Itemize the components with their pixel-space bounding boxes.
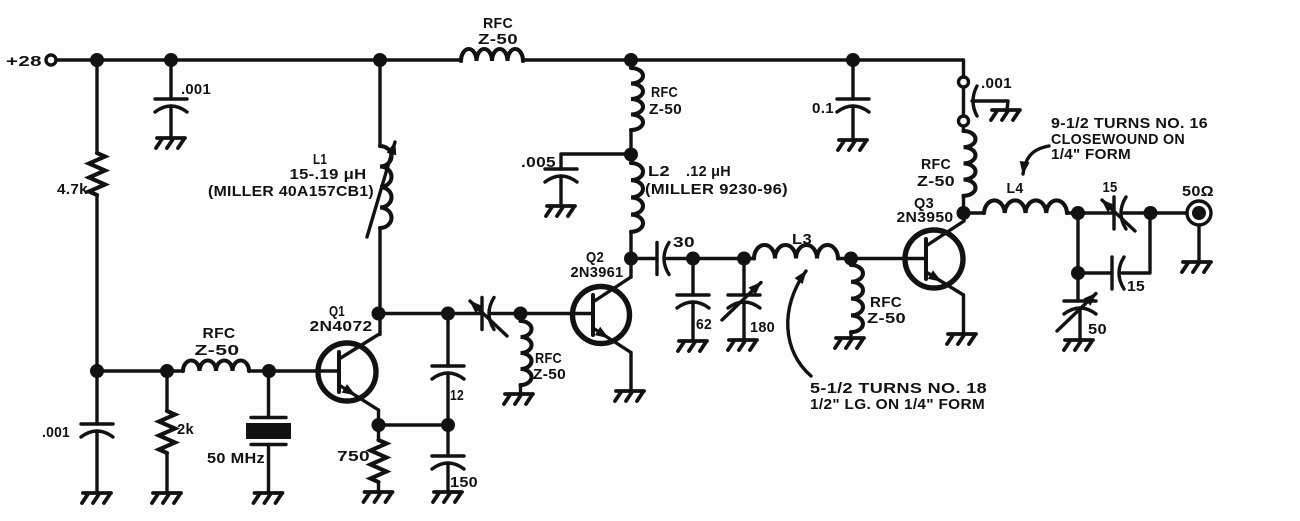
svg-text:RFC: RFC bbox=[483, 15, 513, 32]
svg-text:2N3961: 2N3961 bbox=[571, 264, 624, 281]
node output junction bbox=[1144, 206, 1158, 220]
ground cap62 bbox=[678, 341, 707, 351]
inductor L4 bbox=[964, 211, 985, 214]
inductor RFC Z-50 Q3 base bbox=[849, 259, 852, 339]
svg-text:.001: .001 bbox=[42, 424, 70, 441]
capacitor 30 coupling bbox=[631, 257, 657, 260]
svg-text:Z-50: Z-50 bbox=[867, 310, 906, 327]
svg-text:Z-50: Z-50 bbox=[917, 173, 955, 190]
node var180 top bbox=[737, 252, 751, 266]
node Q3 base bbox=[844, 252, 858, 266]
svg-text:RFC: RFC bbox=[921, 156, 951, 173]
svg-text:RFC: RFC bbox=[203, 325, 236, 342]
node cap12 top bbox=[441, 307, 455, 321]
capacitor 62 bbox=[691, 259, 694, 342]
capacitor 12 bbox=[446, 314, 449, 426]
wire cap to ground bbox=[95, 431, 98, 493]
svg-text:150: 150 bbox=[450, 474, 478, 491]
svg-text:30: 30 bbox=[673, 234, 695, 251]
node lower rail junction B bbox=[160, 364, 174, 378]
svg-text:50 MHz: 50 MHz bbox=[207, 450, 265, 467]
svg-text:L4: L4 bbox=[1007, 180, 1024, 197]
svg-text:2k: 2k bbox=[177, 421, 194, 438]
ground RFC Q2 base bbox=[504, 394, 533, 404]
wire bypass cap column bbox=[169, 60, 172, 99]
node Q2 collector bbox=[624, 252, 638, 266]
wire 4.7k to lower rail bbox=[95, 195, 98, 424]
variable capacitor 15 series bbox=[1114, 197, 1126, 229]
capacitor 15 fixed bbox=[1112, 257, 1124, 289]
svg-text:RFC: RFC bbox=[870, 294, 902, 311]
ground Q2 emitter bbox=[615, 391, 644, 401]
node .005 tap bbox=[624, 148, 638, 162]
svg-text:15-.19 μH: 15-.19 μH bbox=[290, 166, 367, 183]
terminal 50 ohm output bbox=[1187, 201, 1211, 225]
svg-text:1/2" LG. ON 1/4" FORM: 1/2" LG. ON 1/4" FORM bbox=[810, 396, 985, 413]
ground cap 0.1 bbox=[838, 140, 867, 150]
transistor Q2 2N3961 bbox=[573, 287, 630, 344]
node lower rail junction C bbox=[262, 364, 276, 378]
node pi loop bbox=[1071, 266, 1085, 280]
wire emitter row bbox=[379, 423, 449, 426]
inductor RFC Z-50 above L2 bbox=[629, 60, 632, 163]
capacitor .001 top left bbox=[155, 99, 187, 112]
svg-text:15: 15 bbox=[1127, 278, 1145, 295]
inductor L2 bbox=[631, 163, 643, 232]
svg-text:2N4072: 2N4072 bbox=[310, 318, 373, 335]
node cap150 top bbox=[441, 418, 455, 432]
capacitor .001 feedthrough bbox=[973, 86, 977, 116]
resistor 2k bbox=[165, 371, 168, 493]
wire feedthrough link bbox=[962, 87, 965, 116]
node Q2 base bbox=[514, 307, 528, 321]
capacitor .005 bbox=[561, 154, 631, 206]
svg-text:5-1/2 TURNS NO. 18: 5-1/2 TURNS NO. 18 bbox=[810, 380, 987, 397]
node cap62 top bbox=[686, 252, 700, 266]
inductor L1 variable bbox=[380, 146, 392, 228]
node Q1 emitter bbox=[372, 418, 386, 432]
svg-text:0.1: 0.1 bbox=[812, 100, 834, 117]
inductor RFC Z-50 Q3 collector bbox=[962, 126, 965, 213]
svg-text:1/4" FORM: 1/4" FORM bbox=[1051, 146, 1131, 163]
trimmer capacitor interstage bbox=[482, 298, 494, 330]
terminal feedthrough lower bbox=[959, 116, 969, 126]
ground top left cap bbox=[156, 138, 185, 148]
capacitor .001 bottom left bbox=[81, 424, 113, 437]
svg-text:2N3950: 2N3950 bbox=[897, 209, 954, 226]
svg-text:Z-50: Z-50 bbox=[649, 101, 682, 118]
wire L1 column bbox=[378, 60, 381, 335]
svg-text:.001: .001 bbox=[181, 81, 211, 98]
svg-text:.005: .005 bbox=[521, 154, 556, 171]
ground Q3 emitter bbox=[947, 334, 976, 344]
node rail junction D bbox=[624, 53, 638, 67]
ground 750 bbox=[364, 492, 393, 502]
ground bottom left bbox=[82, 493, 111, 503]
resistor 4.7k bbox=[89, 153, 105, 195]
ground var180 bbox=[728, 340, 757, 350]
inductor RFC Z-50 Q2 base bbox=[519, 314, 522, 395]
svg-text:750: 750 bbox=[337, 448, 370, 465]
node Q3 collector bbox=[957, 206, 971, 220]
terminal +28 input bbox=[46, 55, 56, 65]
node rail junction C bbox=[373, 53, 387, 67]
svg-text:Z-50: Z-50 bbox=[533, 366, 566, 383]
inductor RFC Z-50 top rail bbox=[461, 49, 523, 61]
ground .005 bbox=[546, 206, 575, 216]
terminal feedthrough upper bbox=[959, 77, 969, 87]
svg-text:L3: L3 bbox=[792, 231, 812, 248]
node L4 output bbox=[1071, 206, 1085, 220]
inductor L3 bbox=[754, 245, 838, 259]
wire lower rail left bbox=[97, 369, 339, 372]
ground var50 bbox=[1064, 340, 1093, 350]
inductor RFC Z-50 input bbox=[183, 361, 249, 371]
wire top supply rail bbox=[56, 60, 964, 77]
wire pi loop left bbox=[1078, 213, 1112, 273]
transistor Q1 2N4072 bbox=[318, 343, 376, 401]
svg-text:RFC: RFC bbox=[535, 350, 562, 367]
node Q1 collector bbox=[372, 307, 386, 321]
svg-text:.001: .001 bbox=[981, 75, 1012, 92]
wire Q1 collector row bbox=[379, 312, 483, 315]
wire cap to ground bbox=[169, 106, 172, 138]
svg-text:+28: +28 bbox=[6, 53, 42, 70]
svg-text:Z-50: Z-50 bbox=[195, 342, 240, 359]
svg-text:180: 180 bbox=[750, 319, 775, 336]
annotation 9-1/2 turns arrow bbox=[1023, 146, 1049, 174]
crystal 50 MHz bbox=[267, 371, 270, 493]
capacitor 0.1 bbox=[851, 60, 854, 140]
transistor Q3 2N3950 bbox=[905, 230, 963, 288]
wire L4 to output cap bbox=[1067, 211, 1114, 214]
ground cap150 bbox=[433, 492, 462, 502]
svg-text:.12 μH: .12 μH bbox=[686, 163, 731, 180]
node rail junction B bbox=[164, 53, 178, 67]
wire 4.7k column top bbox=[95, 60, 98, 153]
svg-text:15: 15 bbox=[1103, 179, 1118, 196]
svg-text:12: 12 bbox=[450, 387, 464, 404]
resistor 750 bbox=[377, 425, 380, 492]
wire output to ground bbox=[1197, 225, 1200, 262]
wire Q3 base row bbox=[838, 257, 926, 260]
ground feedthrough bbox=[991, 110, 1020, 120]
svg-text:(MILLER 9230-96): (MILLER 9230-96) bbox=[645, 181, 788, 198]
ground output bbox=[1182, 262, 1211, 272]
ground crystal bbox=[254, 493, 283, 503]
svg-text:50: 50 bbox=[1088, 321, 1107, 338]
svg-text:62: 62 bbox=[696, 316, 712, 333]
svg-text:4.7k: 4.7k bbox=[57, 181, 88, 198]
node rail junction A bbox=[90, 53, 104, 67]
capacitor 150 bbox=[446, 425, 449, 492]
svg-text:Z-50: Z-50 bbox=[478, 31, 518, 48]
variable capacitor 180 bbox=[742, 259, 745, 341]
annotation 5-1/2 turns arrow bbox=[788, 271, 811, 376]
wire pi loop right bbox=[1122, 213, 1150, 273]
svg-text:RFC: RFC bbox=[651, 84, 678, 101]
svg-text:9-1/2 TURNS NO. 16: 9-1/2 TURNS NO. 16 bbox=[1051, 115, 1208, 132]
variable capacitor 50 bbox=[1078, 273, 1080, 340]
node rail junction E bbox=[846, 53, 860, 67]
svg-text:L2: L2 bbox=[648, 163, 670, 180]
ground 2k bbox=[152, 493, 181, 503]
node lower rail junction A bbox=[90, 364, 104, 378]
ground RFC Q3 base bbox=[835, 338, 864, 348]
svg-text:(MILLER 40A157CB1): (MILLER 40A157CB1) bbox=[208, 183, 374, 200]
svg-text:50Ω: 50Ω bbox=[1182, 183, 1214, 200]
